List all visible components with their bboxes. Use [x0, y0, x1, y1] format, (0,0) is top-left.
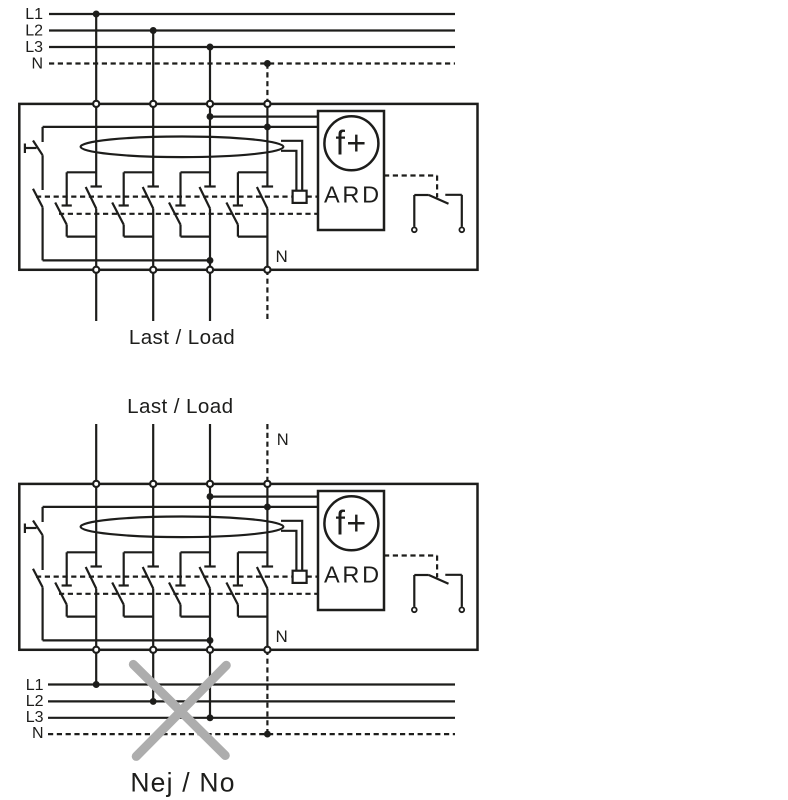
wire: test branch lower (top diagram): [41, 207, 43, 260]
wire: pole L2 upper conductor (bottom diagram): [152, 484, 154, 567]
wire: test branch middle (top diagram): [41, 155, 43, 190]
supply drop L3 (bottom diagram): [209, 650, 211, 718]
junction: N tap (bottom diagram): [264, 503, 271, 510]
auxiliary signal contact (bottom diagram): [412, 575, 464, 612]
wire: ARD control output (dashed) (bottom diagram): [384, 554, 437, 556]
wire: pole N lower conductor (top diagram): [266, 209, 268, 270]
wire: CT secondary pair (bottom diagram): [281, 521, 302, 571]
svg-text:N: N: [276, 627, 288, 646]
junction: test return on L3 pole (top diagram): [207, 257, 214, 264]
trip linkage lower (dashed) (bottom diagram): [59, 593, 318, 595]
ARD module U1 (top diagram): [318, 111, 384, 230]
terminals on enclosure bottom edge (top diagram): [93, 267, 270, 273]
pole switch contact L1 (bottom diagram): [55, 552, 102, 616]
test button contact T (top diagram): [33, 141, 43, 156]
junction: L3 tap (bottom diagram): [207, 493, 214, 500]
load wire N (bottom diagram): [266, 424, 268, 484]
wire: pole L2 upper conductor (top diagram): [152, 104, 154, 187]
junction L1 supply (top diagram): [93, 11, 100, 18]
supply drop L1 (top diagram): [95, 14, 97, 104]
wire: CT secondary pair (top diagram): [281, 141, 302, 191]
wire: pole N upper conductor (bottom diagram): [266, 484, 268, 567]
wire: pole L2 lower conductor (top diagram): [152, 209, 154, 270]
net N supply line (bottom diagram): [48, 733, 455, 735]
svg-text:N: N: [31, 56, 43, 73]
svg-text:ARD: ARD: [324, 561, 382, 587]
auxiliary linked contact in test branch (bottom diagram): [33, 569, 43, 588]
auxiliary signal contact (top diagram): [412, 195, 464, 232]
wire: pole L3 lower conductor (bottom diagram): [209, 589, 211, 650]
wire: pole N upper conductor (top diagram): [266, 104, 268, 187]
svg-text:L3: L3: [26, 709, 44, 726]
wire: test circuit / N tap to ARD (bottom diagram): [43, 506, 318, 508]
junction: L3 tap (top diagram): [207, 113, 214, 120]
wire: pole L1 lower conductor (top diagram): [95, 209, 97, 270]
junction N supply (bottom diagram): [264, 731, 271, 738]
svg-text:L3: L3: [25, 39, 43, 56]
wire: pole L1 upper conductor (top diagram): [95, 104, 97, 187]
wire: test branch lower (bottom diagram): [41, 587, 43, 640]
wire: test branch upper (bottom diagram): [41, 507, 43, 522]
pole switch contact N (bottom diagram): [226, 552, 273, 616]
load wire L2 (top diagram): [152, 270, 154, 321]
net L1 supply line (bottom diagram): [48, 683, 455, 685]
junction N supply (top diagram): [264, 60, 271, 67]
wire: pole N lower conductor (bottom diagram): [266, 589, 268, 650]
svg-text:Last / Load: Last / Load: [129, 326, 235, 349]
junction L2 supply (bottom diagram): [150, 698, 157, 705]
svg-text:L2: L2: [25, 22, 43, 39]
wire: L3 tap to ARD (top diagram): [210, 115, 318, 117]
wire: L3 tap to ARD (bottom diagram): [210, 496, 318, 498]
svg-text:f+: f+: [335, 124, 367, 162]
svg-text:L2: L2: [26, 693, 44, 710]
load wire L2 (bottom diagram): [152, 424, 154, 484]
trip linkage upper (dashed) (top diagram): [36, 196, 293, 198]
RCD enclosure box (bottom diagram): [19, 484, 477, 650]
wire: pole L3 upper conductor (bottom diagram): [209, 484, 211, 567]
net L1 supply line (top diagram): [49, 13, 455, 15]
wire: pole L1 lower conductor (bottom diagram): [95, 589, 97, 650]
f+ indicator (bottom diagram): [324, 496, 378, 550]
f+ indicator (top diagram): [324, 116, 378, 170]
supply drop L3 (top diagram): [209, 47, 211, 104]
wire: ARD control output (dashed) (top diagram): [384, 174, 437, 176]
svg-text:Nej / No: Nej / No: [130, 767, 235, 797]
junction L3 supply (bottom diagram): [207, 714, 214, 721]
svg-text:ARD: ARD: [324, 181, 382, 207]
RCD enclosure box (top diagram): [19, 104, 477, 270]
pole switch contact L2 (top diagram): [112, 172, 159, 236]
wire: pole L1 upper conductor (bottom diagram): [95, 484, 97, 567]
terminals on enclosure top edge (top diagram): [93, 101, 270, 107]
supply drop L2 (top diagram): [152, 31, 154, 104]
terminals on enclosure top edge (bottom diagram): [93, 481, 270, 487]
net L3 supply line (top diagram): [49, 46, 455, 48]
junction: test return on L3 pole (bottom diagram): [207, 637, 214, 644]
svg-text:f+: f+: [335, 504, 367, 542]
cross-out X wrong wiring: [133, 664, 226, 756]
wire: test return bus (top diagram): [43, 259, 210, 261]
auxiliary linked contact in test branch (top diagram): [33, 189, 43, 208]
load wire L3 (top diagram): [209, 270, 211, 321]
wire: pole L3 lower conductor (top diagram): [209, 209, 211, 270]
trip coil K1 (bottom diagram): [293, 571, 307, 583]
junction: N tap (top diagram): [264, 123, 271, 130]
svg-text:L1: L1: [26, 677, 44, 694]
wire: test circuit / N tap to ARD (top diagram): [43, 126, 318, 128]
trip coil K1 (top diagram): [293, 191, 307, 203]
load wire L1 (top diagram): [95, 270, 97, 321]
svg-text:Last / Load: Last / Load: [127, 395, 233, 418]
CT toroid W1 (top diagram): [81, 137, 284, 158]
test button contact T (bottom diagram): [33, 521, 43, 536]
trip linkage upper (dashed) (bottom diagram): [36, 575, 293, 577]
net L2 supply line (top diagram): [49, 29, 455, 31]
terminals on enclosure bottom edge (bottom diagram): [93, 647, 270, 653]
net L2 supply line (bottom diagram): [48, 700, 455, 702]
svg-text:L1: L1: [25, 6, 43, 23]
wire: test branch upper (top diagram): [41, 127, 43, 142]
wire: pole L2 lower conductor (bottom diagram): [152, 589, 154, 650]
load wire L3 (bottom diagram): [209, 424, 211, 484]
wire: test return bus (bottom diagram): [43, 639, 210, 641]
supply drop N (bottom diagram): [266, 650, 268, 734]
svg-text:N: N: [277, 431, 289, 449]
load wire N (top diagram): [266, 270, 268, 321]
pole switch contact L2 (bottom diagram): [112, 552, 159, 616]
svg-text:N: N: [276, 247, 288, 266]
supply drop L2 (bottom diagram): [152, 650, 154, 702]
wire: test branch middle (bottom diagram): [41, 535, 43, 570]
supply drop L1 (bottom diagram): [95, 650, 97, 685]
trip linkage lower (dashed) (top diagram): [59, 213, 318, 215]
net L3 supply line (bottom diagram): [48, 717, 455, 719]
ARD module U1 (bottom diagram): [318, 491, 384, 610]
supply drop N (top diagram): [266, 64, 268, 104]
pole switch contact L3 (bottom diagram): [169, 552, 216, 616]
pole switch contact N (top diagram): [226, 172, 273, 236]
pole switch contact L1 (top diagram): [55, 172, 102, 236]
net N supply line (top diagram): [49, 62, 455, 64]
wire: pole L3 upper conductor (top diagram): [209, 104, 211, 187]
svg-text:N: N: [32, 725, 44, 742]
load wire L1 (bottom diagram): [95, 424, 97, 484]
pole switch contact L3 (top diagram): [169, 172, 216, 236]
junction L3 supply (top diagram): [207, 44, 214, 51]
junction L2 supply (top diagram): [150, 27, 157, 34]
CT toroid W1 (bottom diagram): [81, 517, 284, 538]
junction L1 supply (bottom diagram): [93, 681, 100, 688]
